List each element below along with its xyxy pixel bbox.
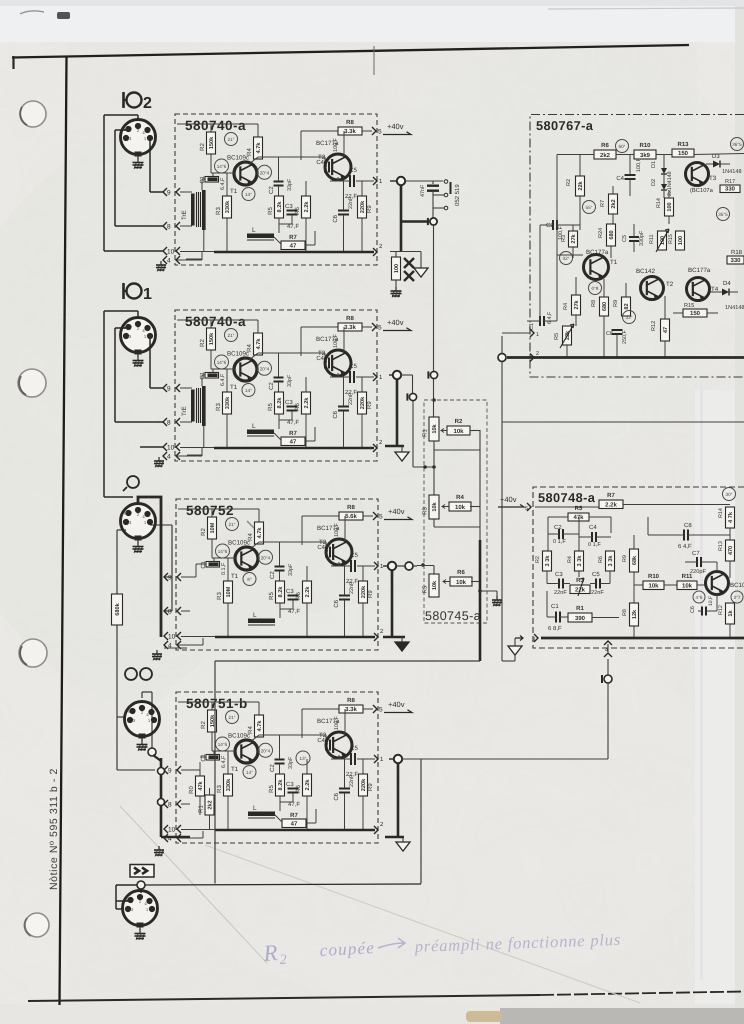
svg-text:T1: T1 [231,573,239,580]
svg-text:14°6: 14°6 [217,164,227,169]
svg-text:R8: R8 [346,119,354,126]
748 wire R1 to pin4 node [607,618,609,639]
svg-text:C5: C5 [350,745,358,752]
jack to mixer line [430,218,437,225]
svg-text:6 4,F: 6 4,F [547,311,553,324]
767 voltage circle 0.8 [589,282,602,295]
svg-text:R7: R7 [607,492,615,499]
wires tape connector [117,716,125,718]
svg-text:250,F: 250,F [622,330,628,344]
pin 8 chevrons [164,800,168,808]
svg-text:14°: 14° [245,388,252,393]
module4 pin4 gnd [158,846,160,850]
svg-text:5: 5 [525,506,528,512]
crease line B [120,806,267,963]
svg-text:12k: 12k [631,609,638,619]
stray stroke near 580752 [247,521,262,536]
svg-text:27k: 27k [570,233,577,243]
svg-text:150: 150 [690,310,701,317]
power amp pin4 arrows [607,659,609,675]
svg-text:150: 150 [678,150,689,157]
svg-text:R5: R5 [422,585,429,593]
svg-text:580740-a: 580740-a [185,118,246,133]
voltage circle 14.6 [216,737,230,751]
767 wires misc [557,154,578,156]
svg-text:0°8: 0°8 [592,286,599,291]
svg-text:22nF: 22nF [554,590,567,596]
wire output row [330,376,350,378]
pin 8 chevrons [163,222,167,230]
wire output row [330,180,350,182]
svg-text:R4: R4 [567,556,573,563]
svg-text:0 1,F: 0 1,F [588,542,601,548]
ground triangle module1 [420,252,422,269]
svg-text:22nF: 22nF [349,774,355,787]
svg-text:8: 8 [167,224,171,231]
748 resistor R5 47k [568,513,589,521]
svg-text:C4: C4 [317,737,325,744]
svg-text:R7: R7 [289,234,297,241]
wire T1 collector to T2 base [250,735,259,742]
mixer ground hatch [480,590,497,592]
svg-text:10: 10 [168,827,176,834]
output connector top ring [137,881,145,889]
748 voltage circle 4.6 [693,591,705,603]
svg-text:BC142: BC142 [636,268,655,275]
748 transistor BC109 [706,572,729,595]
svg-text:R15: R15 [684,303,694,309]
junction dots [432,398,436,402]
wire C1 junction [213,558,215,562]
svg-text:10,F: 10,F [708,596,714,606]
svg-text:R: R [262,940,279,966]
svg-text:10k: 10k [431,580,438,590]
pin 9 chevrons [164,573,168,581]
contact ring b [158,799,165,806]
wires D1 to module 2 [137,311,139,318]
voltage circle 20.4 [258,165,272,179]
svg-text:22nF: 22nF [349,581,355,594]
resistor R2 [207,132,216,154]
svg-text:33°: 33° [626,315,633,320]
wire T2 emitter down [337,177,339,181]
pin 10 chevrons [163,247,167,255]
resistor R6 [305,181,307,196]
wire R8 to pin 5 [363,708,373,710]
ground bus row 10-2 [181,829,215,831]
svg-text:4.7k: 4.7k [255,338,262,350]
handwritten note R2 coupee [262,938,376,968]
mixer resistor R4 [449,502,471,511]
svg-text:5: 5 [379,514,383,521]
resistor R7 [282,819,306,828]
svg-text:3 3k: 3 3k [544,555,551,567]
wire TrE secondary to C1 [201,375,203,386]
767 top rail wires [578,154,594,156]
svg-text:R5: R5 [268,592,275,600]
svg-text:R12: R12 [651,321,657,331]
wire +40v rail [301,326,338,328]
svg-text:10k: 10k [431,423,438,433]
svg-text:T1: T1 [230,384,238,391]
svg-text:C5: C5 [622,235,628,242]
ground bus row 10-2 [181,636,215,638]
resistor R8 [339,705,363,713]
voltage circle 21 [225,133,238,146]
svg-text:L: L [253,805,257,812]
svg-text:100: 100 [667,202,673,211]
svg-text:R14: R14 [656,198,662,208]
aux ring 2 [409,393,416,400]
767 resistor R10 3k9 [634,150,656,159]
wire R2 top [178,701,212,703]
mixer resistor R6 [450,577,472,586]
resistor R6 [306,566,308,581]
svg-text:2x1N4148: 2x1N4148 [667,171,673,196]
svg-text:C4: C4 [616,175,624,182]
svg-text:33pF: 33pF [287,178,293,191]
svg-text:6 4,F: 6 4,F [678,543,692,550]
svg-text:21°: 21° [228,137,235,142]
svg-text:R13: R13 [718,541,724,551]
voltage circle 14 [243,766,256,779]
svg-text:10: 10 [168,634,176,641]
resistor R6 [306,759,308,774]
wire module2 jack to tape branch [401,374,413,376]
svg-text:R2: R2 [455,418,463,425]
shield thick wire to module 3 bus [138,497,161,637]
svg-text:100,F: 100,F [333,334,339,348]
svg-text:R5: R5 [575,505,583,512]
svg-text:R8: R8 [346,315,354,322]
767 out line below [501,362,503,423]
svg-text:R2: R2 [566,179,572,186]
svg-text:C6: C6 [333,792,340,800]
svg-text:R3: R3 [216,592,223,600]
svg-text:100,F: 100,F [334,716,340,730]
748 gnd to pin3 [514,638,516,645]
module2 ground triangle [401,446,403,452]
svg-text:R5: R5 [267,403,274,411]
svg-text:C3: C3 [285,399,293,406]
DIN connector D1 [121,318,156,353]
svg-text:1N4148: 1N4148 [722,169,742,175]
svg-text:22nF: 22nF [348,196,354,209]
svg-text:4°6: 4°6 [696,595,703,600]
wire module1 out to speaker socket [405,180,443,182]
svg-text:14°6: 14°6 [217,360,227,365]
module2 thick drop to bus [396,379,399,446]
svg-text:220k: 220k [359,200,366,213]
svg-text:47: 47 [291,821,298,828]
svg-text:R3: R3 [216,785,223,793]
svg-text:R7: R7 [600,200,606,207]
svg-text:C1: C1 [551,603,559,610]
speaker socket terminal rings [444,180,448,184]
wire R8 to pin 5 [362,326,372,328]
767 voltage circle 36.5 [731,138,744,151]
svg-text:R5: R5 [268,785,275,793]
svg-text:3.3k: 3.3k [344,128,356,135]
svg-text:0.1,F: 0.1,F [221,562,227,575]
svg-text:C4: C4 [316,159,324,166]
svg-text:2.2k: 2.2k [304,779,311,791]
pin4 hook wires module1 [186,258,202,260]
svg-text:21°: 21° [228,333,235,338]
thick link module1 to jack node [400,185,403,252]
pin 9 chevrons [163,188,167,196]
next page dark band bottom right [500,1008,744,1024]
voltage circle 14.6 [215,159,229,173]
wire R2 top [178,508,212,510]
svg-text:21°: 21° [229,715,236,720]
svg-text:R2: R2 [199,339,206,347]
svg-text:27k: 27k [573,299,580,309]
748 voltage circle 30 [723,488,736,501]
svg-text:R24: R24 [598,228,604,238]
748 pin 3 bus [534,634,538,642]
svg-text:T2: T2 [666,281,674,288]
svg-text:C2: C2 [268,186,275,194]
svg-text:82: 82 [624,303,630,309]
equalizer 580748-a dashed box [533,487,744,648]
svg-text:R6: R6 [601,142,609,149]
767 resistor R6 2k2 [594,150,616,159]
svg-text:BC177a: BC177a [688,267,711,274]
svg-text:3.3k: 3.3k [344,324,356,331]
svg-text:R9: R9 [366,401,373,409]
svg-text:C2: C2 [269,764,276,772]
DIN connector tape [125,702,160,737]
svg-text:R2: R2 [200,721,207,729]
contact ring a [158,768,165,775]
wire R2 top [177,319,211,321]
svg-text:580752: 580752 [186,503,234,518]
svg-text:22nF: 22nF [348,392,354,405]
svg-text:R3: R3 [422,507,429,515]
svg-text:9: 9 [168,768,172,775]
svg-text:R10: R10 [639,142,651,149]
preamp module 580740-a dashed box [175,114,377,265]
767 transistor T3 BC107a [686,163,709,186]
svg-text:47nF: 47nF [420,184,426,197]
svg-text:C4: C4 [317,544,325,551]
fold tick [373,46,375,75]
svg-text:8: 8 [168,609,172,616]
svg-text:2: 2 [279,953,287,968]
svg-text:390: 390 [575,615,586,622]
ground bus row 10-2 [180,447,214,449]
svg-text:10k: 10k [648,583,659,590]
svg-text:4.7k: 4.7k [255,142,262,154]
748 pin4 label below [607,638,609,641]
voltage circle 21 [225,329,238,342]
svg-text:10k: 10k [431,501,438,511]
svg-text:R5: R5 [554,333,560,340]
svg-text:33pF: 33pF [287,374,293,387]
svg-text:D2: D2 [651,179,657,186]
power amp 580767-a dash-dot box [530,115,744,378]
svg-text:14°6: 14°6 [218,742,228,747]
748 resistor R7 2.2k [599,500,623,509]
preamp module 580740-a dashed box [175,310,377,461]
svg-text:3k9: 3k9 [640,152,651,159]
svg-text:3°7: 3°7 [734,595,741,600]
svg-text:22k: 22k [577,180,584,190]
svg-text:330pF: 330pF [639,230,645,246]
voltage circle 14.6 [216,544,230,558]
resistor R8 [338,323,362,331]
svg-text:1N4148: 1N4148 [725,305,744,311]
svg-text:60°: 60° [619,144,626,149]
svg-text:C4: C4 [589,524,597,531]
wire output row [331,565,351,567]
svg-text:2k2: 2k2 [600,152,611,159]
wire R8 to pin 5 [363,515,373,517]
line down from 748 pin4 elbow [420,759,422,884]
module4 thick drop [397,763,400,837]
voltage circle 20.4 [258,361,272,375]
resistor R9 220k [361,181,363,196]
svg-text:C5: C5 [349,363,357,370]
svg-text:R9: R9 [613,300,619,307]
recorder feed line [215,660,480,662]
wire R4 top [258,702,260,715]
svg-text:R9: R9 [367,590,374,598]
svg-text:R1: R1 [422,429,429,437]
svg-text:10k: 10k [456,579,467,586]
wire pin 8 [181,803,190,805]
wire T2 collector to rail [300,327,302,356]
resistor R3 [226,173,228,196]
resistor R9 220k [362,759,364,774]
svg-text:R10: R10 [648,573,660,580]
wire T2 collector to rail [301,516,303,545]
resistor R2 [208,710,217,732]
wire T2 collector to rail [301,709,303,738]
svg-text:R9: R9 [622,555,628,562]
resistor R5 [275,392,284,414]
wire T1 collector to T2 base [250,542,259,549]
svg-text:C7: C7 [692,550,700,557]
resistor R3 [227,751,229,774]
resistor R3 [226,369,228,392]
svg-text:5: 5 [378,325,382,332]
wire T1 collector to T2 base [249,353,258,360]
module2 output jack [393,371,401,379]
svg-text:47: 47 [663,327,669,333]
767 input jack ring [498,354,506,362]
pin 4 chevrons [163,256,167,264]
frame top line [12,45,689,58]
svg-text:T1: T1 [230,188,238,195]
748 voltage circle 3.7 [731,591,743,603]
mixer 580745-a dashed box [424,400,487,623]
wire +40v rail [302,708,339,710]
voltage circle 21 [226,711,239,724]
svg-text:10M: 10M [226,586,232,597]
svg-text:C6: C6 [333,599,340,607]
pin 8 chevrons [163,418,167,426]
wire C1 junction [213,751,215,755]
748 resistor R3 22k variable [570,585,590,594]
resistor R2 [207,328,216,350]
svg-text:T1: T1 [610,259,618,266]
wire C1 junction [212,173,214,177]
thick contact bar to module 4 [160,758,163,837]
svg-text:R4: R4 [563,303,569,310]
svg-text:3.3k: 3.3k [345,706,357,713]
resistor R4 [255,522,264,544]
svg-text:2k2: 2k2 [207,800,214,809]
cross marks [404,258,414,268]
svg-text:(BC107a: (BC107a [690,187,714,194]
svg-text:3 3k: 3 3k [607,555,614,567]
wire T1 base [211,732,213,751]
wires D2 to module 1 [137,115,139,120]
svg-text:8.2k: 8.2k [277,586,284,598]
svg-text:C6: C6 [332,410,339,418]
module3 ground triangle filled [401,637,403,642]
pin 4 chevrons [164,834,168,842]
svg-text:R11: R11 [649,235,655,245]
748 mid wires [589,588,608,590]
resistor 680k [117,529,126,531]
pin 4 chevrons [164,641,168,649]
resistor R2 [208,517,217,539]
svg-text:220pF: 220pF [690,569,706,575]
resistor R4 [254,137,263,159]
svg-text:32°: 32° [563,256,570,261]
DIN connector output [123,891,158,926]
phono symbol [127,476,139,488]
svg-text:2.2k: 2.2k [303,397,310,409]
mixer resistor R2 [447,426,470,435]
svg-text:D1: D1 [651,161,657,168]
output symbol >> [130,865,154,878]
svg-text:220k: 220k [360,778,367,791]
punch hole 3 [19,639,47,667]
svg-text:20°4: 20°4 [261,748,271,753]
svg-text:10k: 10k [682,583,693,590]
preamp module 580751-b dashed box [176,692,378,843]
pin 9 chevrons [163,384,167,392]
svg-text:14°: 14° [246,770,253,775]
resistor R5 [276,774,285,796]
svg-text:3 3k: 3 3k [576,555,583,567]
right edge streak [735,0,744,1024]
mixer output bus [479,430,481,540]
wires phono connector pins [150,524,172,526]
svg-text:BC10: BC10 [730,582,744,589]
mixer resistor R5 [429,574,439,597]
resistor R3 [227,558,229,581]
svg-text:R18: R18 [731,249,743,256]
svg-text:10M: 10M [210,522,216,533]
svg-text:TrE: TrE [181,210,188,220]
svg-text:R7: R7 [290,812,298,819]
svg-text:+40v: +40v [387,122,404,131]
punch hole 1 [20,101,46,127]
resistor R5 [275,196,284,218]
748 resistor R11 10k [677,581,697,590]
wire pins to TrE [180,387,192,389]
module1 output jack [397,177,405,185]
svg-text:R17: R17 [725,179,735,185]
frame bottom line [28,995,540,1001]
aux ring on line [430,371,437,378]
svg-text:TrE: TrE [181,406,188,416]
